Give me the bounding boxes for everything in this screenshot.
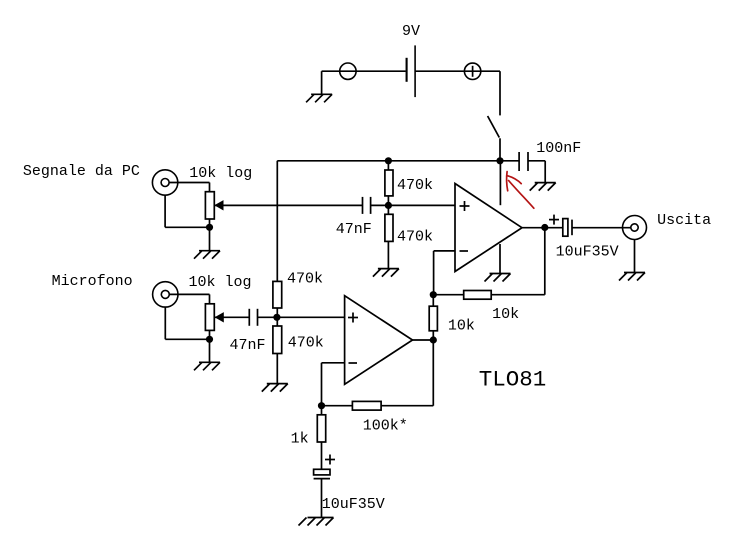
svg-text:100k*: 100k* xyxy=(363,418,408,435)
svg-text:Uscita: Uscita xyxy=(657,212,711,229)
battery B1 9V xyxy=(407,45,416,97)
jack J1 Segnale da PC xyxy=(152,170,177,195)
wire pot1 node to ground xyxy=(209,227,211,250)
capacitor C5 10uF35V plus sign xyxy=(325,455,335,465)
wire R2 to ground xyxy=(387,241,389,268)
node opamp2 output xyxy=(430,336,437,343)
wire output node down xyxy=(432,340,434,406)
wire pot1 top xyxy=(209,183,211,192)
resistor R5 10k vertical xyxy=(429,306,437,331)
op-amp U2 xyxy=(345,296,413,385)
svg-text:Microfono: Microfono xyxy=(52,273,133,290)
wire J1 shield drop xyxy=(164,195,166,227)
potentiometer P1 10k log xyxy=(205,192,214,219)
wire pot2 top xyxy=(209,294,211,303)
wire J1 shield to node xyxy=(165,226,209,228)
wire battery left horizontal xyxy=(322,70,406,72)
wire U2 minus input xyxy=(322,362,345,364)
wire C3 right xyxy=(528,160,545,162)
wire C4 to jack J3 xyxy=(572,227,631,229)
wire R8 to riser xyxy=(491,294,545,296)
wire J1 tip to pot xyxy=(169,182,209,184)
wire rail node to R1 xyxy=(387,161,389,170)
ground J3 xyxy=(619,273,645,281)
ground battery left xyxy=(306,94,332,102)
resistor R6 100k* xyxy=(352,401,381,410)
svg-text:10k: 10k xyxy=(448,318,475,335)
ground pot1 xyxy=(194,251,220,259)
op-amp U1 xyxy=(455,184,522,272)
svg-text:10uF35V: 10uF35V xyxy=(556,243,619,260)
node rail R1 xyxy=(385,157,392,164)
node opamp1 output xyxy=(541,224,548,231)
resistor R3 470k xyxy=(273,281,282,308)
capacitor C5 10uF35V xyxy=(314,469,330,478)
resistor R7 1k xyxy=(317,415,325,442)
wire wiper1 line xyxy=(214,204,362,206)
ground R4 xyxy=(262,384,288,392)
node feedback left xyxy=(318,402,325,409)
svg-text:9V: 9V xyxy=(402,23,420,40)
resistor R4 470k xyxy=(273,326,282,354)
capacitor C4 10uF35V xyxy=(563,219,572,237)
ground R2 xyxy=(373,269,399,277)
wire U1 vminus xyxy=(499,244,501,274)
svg-text:10k log: 10k log xyxy=(189,165,252,182)
node pot1 bottom xyxy=(206,224,213,231)
wire U1 minus input xyxy=(434,250,455,252)
node rail switch xyxy=(496,157,503,164)
wire R4 to ground xyxy=(276,354,278,384)
svg-text:470k: 470k xyxy=(397,229,433,246)
jack J2 Microfono xyxy=(153,282,178,307)
svg-text:TLO81: TLO81 xyxy=(479,367,547,393)
wire R1 to node xyxy=(387,196,389,214)
wire wiper2 line xyxy=(215,316,250,318)
wire pot2 node to ground xyxy=(209,339,211,362)
wire battery right horizontal xyxy=(415,70,500,72)
switch SW1 blade xyxy=(488,116,500,138)
ground U1 xyxy=(485,274,511,282)
wire feedback node to R8 xyxy=(433,294,463,296)
wire J3 shield xyxy=(634,239,636,272)
wire C1 to opamp1 plus xyxy=(371,204,455,206)
svg-text:10k log: 10k log xyxy=(189,274,252,291)
svg-text:470k: 470k xyxy=(397,177,433,194)
ground C5 xyxy=(299,518,334,526)
wire switch bottom xyxy=(499,138,501,161)
wire R3 to node xyxy=(276,308,278,326)
capacitor C4 plus sign xyxy=(549,215,559,225)
wire U1 output xyxy=(522,227,563,229)
wire node to C3 xyxy=(500,160,519,162)
wire J2 shield drop xyxy=(164,307,166,339)
wire U1 vplus xyxy=(499,161,501,205)
resistor R8 10k horizontal xyxy=(464,291,492,300)
capacitor C2 47nF xyxy=(249,309,257,326)
battery plus terminal xyxy=(464,63,480,79)
wire U1 minus drop xyxy=(433,251,435,295)
capacitor C3 100nF xyxy=(519,152,528,171)
wire supply rail xyxy=(277,160,500,162)
potentiometer P2 10k log xyxy=(205,304,214,331)
wire pot2 bottom xyxy=(209,330,211,339)
svg-text:10uF35V: 10uF35V xyxy=(322,496,385,513)
ground C3 xyxy=(530,183,556,191)
wire R7 to C5 xyxy=(321,442,323,469)
svg-text:47nF: 47nF xyxy=(336,221,372,238)
wire U2 output xyxy=(413,339,434,341)
capacitor C1 47nF xyxy=(363,197,371,214)
svg-text:470k: 470k xyxy=(287,270,323,287)
wire riser to output node xyxy=(544,228,546,295)
resistor R1 470k xyxy=(385,170,393,196)
wire battery left drop xyxy=(321,71,323,94)
svg-text:Segnale da PC: Segnale da PC xyxy=(23,163,140,180)
battery minus terminal xyxy=(340,63,356,79)
resistor R2 470k xyxy=(385,214,393,241)
svg-text:1k: 1k xyxy=(291,430,309,447)
wire pot1 bottom xyxy=(209,219,211,227)
ground pot2 xyxy=(194,362,220,370)
wire node to R7 xyxy=(321,406,323,415)
wire C3 drop xyxy=(544,161,546,183)
svg-text:470k: 470k xyxy=(288,335,324,352)
wire feedback node up segment xyxy=(432,295,434,307)
pot P1 wiper arrow xyxy=(214,200,223,210)
svg-text:100nF: 100nF xyxy=(536,140,581,157)
wire J2 tip to pot xyxy=(169,293,209,295)
pot P2 wiper arrow xyxy=(215,312,224,322)
wire R5 to output node xyxy=(432,331,434,340)
wire C5 to ground xyxy=(321,479,323,518)
wire rail drop to mic stage xyxy=(276,161,278,282)
wire R6 to node xyxy=(322,405,353,407)
node feedback mid xyxy=(430,291,437,298)
node pot2 bottom xyxy=(206,336,213,343)
svg-text:47nF: 47nF xyxy=(230,337,266,354)
wire J2 shield to node xyxy=(165,338,209,340)
node opamp2 plus input xyxy=(273,314,280,321)
wire C2 to opamp2 plus xyxy=(258,316,345,318)
node opamp1 plus input xyxy=(385,202,392,209)
wire to R6 xyxy=(381,405,433,407)
jack J3 Uscita xyxy=(623,216,647,240)
wire minus drop to feedback node xyxy=(321,363,323,406)
red annotation arrow xyxy=(507,172,534,209)
wire switch top xyxy=(499,71,501,115)
svg-text:10k: 10k xyxy=(492,306,519,323)
